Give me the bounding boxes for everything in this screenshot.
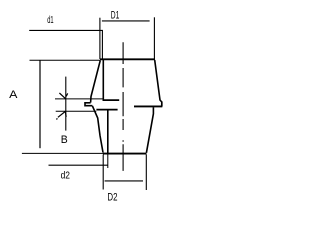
part outline: right widest tip xyxy=(161,102,163,107)
dimension line d1 with extension down to bore xyxy=(29,30,102,59)
bore lower step line xyxy=(96,109,117,111)
svg-text:B: B xyxy=(61,134,68,146)
dimension line d2 xyxy=(49,164,108,166)
extension line d2 right (bore lower below face) xyxy=(107,154,109,168)
part outline: left flange notch xyxy=(85,103,92,106)
svg-text:D1: D1 xyxy=(111,10,120,22)
part outline: top face xyxy=(100,58,155,60)
svg-text:D2: D2 xyxy=(107,191,117,203)
dimension line D1 xyxy=(102,20,150,22)
svg-text:d2: d2 xyxy=(61,170,71,182)
extension line D2 right xyxy=(145,155,147,191)
extension line A bottom xyxy=(22,152,103,154)
part outline: upper-right slant xyxy=(155,60,162,102)
extension line D1 left xyxy=(99,18,101,59)
extension line D1 right xyxy=(153,17,155,59)
dimension line D2 xyxy=(105,180,143,182)
bore upper step line xyxy=(103,99,120,101)
extension line D2 left xyxy=(102,155,104,190)
part outline: upper-left slant xyxy=(91,60,101,102)
arrow B down xyxy=(59,93,67,99)
svg-text:d1: d1 xyxy=(47,14,53,26)
svg-text:A: A xyxy=(9,89,18,101)
part outline: lower-left slant xyxy=(92,106,103,153)
part outline: right mid shoulder line xyxy=(134,105,162,107)
extension line B top xyxy=(55,98,103,100)
part outline: lower-right slant xyxy=(146,107,153,153)
bore upper edge line xyxy=(102,59,104,101)
dimension line B vertical xyxy=(65,77,67,131)
arrow B up xyxy=(57,112,67,120)
extension line B bottom xyxy=(56,110,97,112)
part outline: bottom face xyxy=(103,153,147,155)
extension line A top xyxy=(30,59,101,61)
dimension line A xyxy=(39,60,41,148)
centerline axis dash-dot xyxy=(122,42,124,171)
bore lower edge line xyxy=(107,110,109,154)
